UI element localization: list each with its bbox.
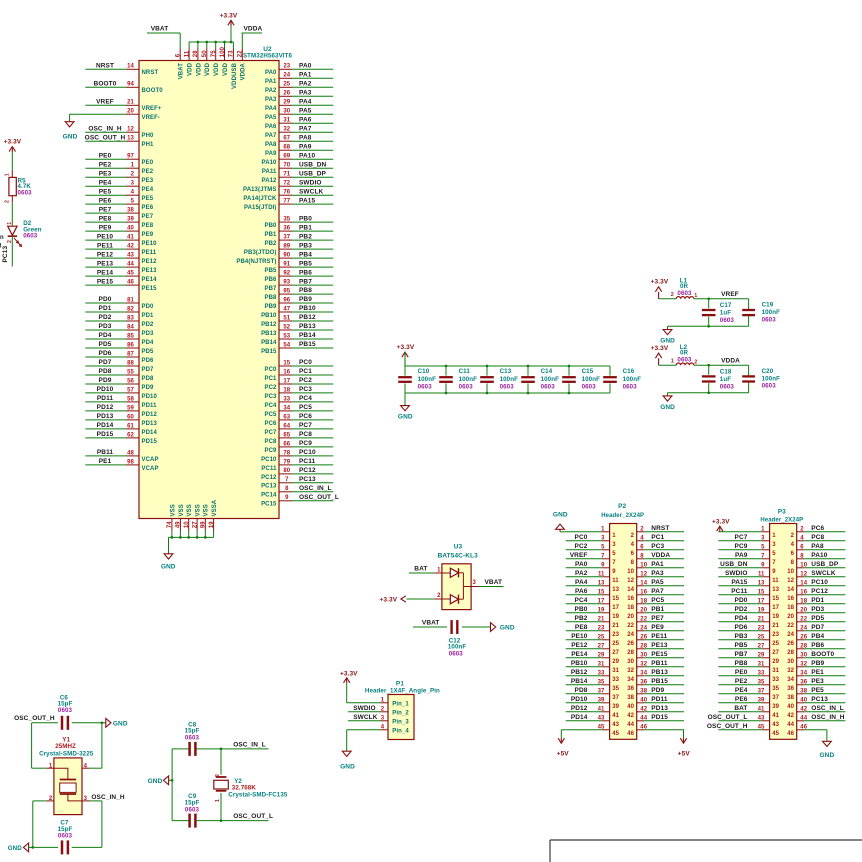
P2 pin 5 PC2 — [566, 543, 617, 557]
svg-text:5: 5 — [612, 551, 616, 557]
U2 pin 37 PB2 wire and labels — [265, 233, 334, 247]
label C16 100nF 0603 — [623, 368, 642, 391]
P2 pin 29 PE14 — [566, 651, 620, 665]
P2 reference designator — [618, 503, 626, 510]
svg-text:17: 17 — [772, 605, 779, 611]
svg-text:15: 15 — [772, 596, 779, 602]
svg-text:PA2: PA2 — [299, 81, 312, 88]
svg-text:OSC_OUT_L: OSC_OUT_L — [233, 813, 273, 820]
svg-text:71: 71 — [283, 172, 290, 178]
wire +3.3V to P1 pin 1 — [347, 683, 381, 703]
svg-text:PC0: PC0 — [265, 367, 278, 373]
junction at +3.3V stem — [230, 41, 233, 44]
wire C9 to OSC_OUT_L label — [196, 820, 269, 822]
svg-text:PD7: PD7 — [142, 367, 155, 373]
svg-text:6: 6 — [176, 53, 182, 57]
svg-text:PB14: PB14 — [261, 340, 277, 346]
wire +3.3V to L2 — [659, 364, 677, 366]
U2 pin 81 PD0 wire and labels — [85, 296, 154, 310]
svg-text:PB12: PB12 — [299, 314, 316, 321]
svg-text:41: 41 — [772, 713, 779, 719]
svg-text:PC10: PC10 — [811, 579, 828, 586]
svg-text:14: 14 — [127, 64, 134, 70]
wire C6 to GND — [72, 722, 102, 724]
svg-text:16: 16 — [787, 596, 794, 602]
svg-text:PA4: PA4 — [575, 579, 588, 586]
U2 pin 15 PC0 wire and labels — [265, 359, 334, 373]
svg-text:96: 96 — [283, 297, 290, 303]
wire OSC_OUT_H to Y1 pin 1 — [32, 723, 47, 768]
P1 pin 2 SWDIO — [348, 705, 409, 717]
U2 pin 13 OSC_OUT_H wire and labels — [85, 134, 154, 148]
svg-text:25: 25 — [612, 641, 619, 647]
svg-text:PH1: PH1 — [142, 142, 155, 148]
svg-text:35: 35 — [772, 686, 779, 692]
svg-text:PC4: PC4 — [265, 403, 278, 409]
svg-text:0603: 0603 — [18, 189, 33, 196]
svg-text:PD2: PD2 — [142, 322, 155, 328]
svg-text:VSS: VSS — [204, 504, 210, 516]
P3 pin 23 PD6 — [718, 624, 779, 638]
svg-text:PC12: PC12 — [811, 588, 828, 595]
svg-text:PA3: PA3 — [265, 97, 277, 103]
P3 pin 16 PC12 — [787, 588, 845, 602]
U3 internal wire — [463, 573, 471, 599]
svg-text:PA10: PA10 — [262, 160, 278, 166]
svg-text:PB5: PB5 — [735, 642, 748, 649]
U2 pin 23 PA0 wire and labels — [265, 63, 333, 77]
svg-text:PE2: PE2 — [735, 678, 748, 685]
svg-text:PD6: PD6 — [735, 624, 748, 631]
svg-text:PD11: PD11 — [651, 696, 668, 703]
svg-text:BOOT0: BOOT0 — [142, 88, 164, 94]
wire OSC_OUT_H to C6 — [32, 722, 58, 724]
svg-text:64: 64 — [283, 423, 290, 429]
svg-text:PE5: PE5 — [99, 188, 112, 195]
svg-text:28: 28 — [193, 50, 199, 57]
U2 pin 42 PE11 wire and labels — [85, 242, 157, 256]
label C11 100nF 0603 — [459, 368, 478, 391]
svg-text:37: 37 — [283, 235, 290, 241]
U2 pin 59 PD12 wire and labels — [85, 404, 157, 418]
label C6 15pF 0603 — [58, 694, 73, 714]
net label OSC_IN_H — [91, 794, 125, 801]
svg-text:46: 46 — [787, 731, 794, 737]
wire +3.3V to L1 — [659, 298, 677, 300]
svg-text:100nF: 100nF — [500, 376, 519, 383]
svg-text:3: 3 — [772, 542, 776, 548]
P2 pin 13 PA4 — [566, 579, 620, 593]
svg-text:59: 59 — [127, 405, 134, 411]
svg-text:C16: C16 — [623, 368, 635, 375]
P3 pin 8 PA10 — [791, 552, 846, 566]
U2 pin 26 PA3 wire and labels — [265, 90, 333, 104]
junction — [31, 846, 34, 849]
svg-text:PB0: PB0 — [265, 223, 278, 229]
svg-text:PB7: PB7 — [735, 651, 748, 658]
svg-text:38: 38 — [787, 695, 794, 701]
wire R5 to D2 — [11, 196, 13, 227]
P2 pin 7 VREF — [566, 552, 617, 566]
svg-text:42: 42 — [787, 713, 794, 719]
P3 pin 43 OSC_OUT_L — [708, 714, 780, 728]
U2 pin 18 PC3 wire and labels — [265, 386, 334, 400]
svg-text:VSS: VSS — [187, 504, 193, 516]
U2 pin 98 PE1 wire and labels — [85, 458, 158, 472]
P2 pin 27 PE12 — [566, 642, 620, 656]
U3 pin 2 +3.3V — [380, 593, 442, 603]
svg-text:PB3(JTDO): PB3(JTDO) — [244, 250, 277, 256]
svg-text:4: 4 — [131, 190, 135, 196]
label Crystal-SMD-FC135 — [228, 791, 288, 798]
svg-text:PA5: PA5 — [299, 108, 312, 115]
svg-text:9: 9 — [612, 569, 616, 575]
label D2 Green 0603 — [23, 220, 42, 239]
svg-text:GND: GND — [500, 624, 515, 631]
U2 pin 7 PC13 wire and labels — [261, 476, 333, 490]
label C12 100nF 0603 — [448, 637, 467, 657]
svg-text:C18: C18 — [720, 369, 732, 376]
svg-text:1: 1 — [215, 799, 221, 802]
svg-text:PE14: PE14 — [97, 269, 114, 276]
svg-text:31: 31 — [612, 668, 619, 674]
svg-text:0603: 0603 — [582, 384, 597, 391]
svg-text:PE13: PE13 — [97, 260, 114, 267]
svg-text:8: 8 — [800, 553, 804, 559]
U2 pin 87 PD6 wire and labels — [85, 350, 154, 364]
svg-text:Pin_1: Pin_1 — [392, 702, 409, 708]
capacitor C6 — [62, 716, 68, 730]
svg-text:C10: C10 — [418, 368, 430, 375]
capacitor C8 — [190, 742, 196, 756]
wire Y1 pin 3 to C7 rail — [90, 801, 102, 848]
P2 pin 39 PD10 — [566, 696, 620, 710]
label C18 1uF 0603 — [720, 369, 735, 391]
svg-text:VDDUSB: VDDUSB — [232, 62, 238, 89]
svg-text:25MHZ: 25MHZ — [55, 743, 76, 750]
U2 pin 3 PE4 wire and labels — [85, 179, 153, 193]
P3 pin 24 PD7 — [787, 624, 845, 638]
net label PC13 — [2, 246, 9, 263]
svg-text:PE7: PE7 — [142, 214, 154, 220]
connector P1 body — [388, 695, 414, 740]
svg-text:OSC_IN_H: OSC_IN_H — [811, 714, 845, 721]
capacitor C9 — [190, 814, 196, 828]
P2 pin 2 NRST — [631, 525, 684, 539]
svg-text:PA1: PA1 — [265, 79, 277, 85]
P2 pin 14 PA5 — [627, 579, 684, 593]
Y1 value 25MHZ — [55, 743, 76, 750]
Y2 reference designator — [234, 778, 242, 785]
wire C7 to Y1 pin 3 — [72, 846, 102, 848]
U2 pin 93 PB7 wire and labels — [265, 278, 334, 292]
svg-text:1uF: 1uF — [720, 310, 731, 317]
svg-text:19: 19 — [612, 614, 619, 620]
P3 pin 12 SWCLK — [787, 570, 845, 584]
svg-text:8: 8 — [631, 560, 635, 566]
svg-text:PD9: PD9 — [142, 385, 155, 391]
P2 pin 34 PB13 — [627, 669, 684, 683]
net label OSC_OUT_L — [233, 813, 273, 820]
svg-text:PD14: PD14 — [571, 714, 588, 721]
P3 pin 30 BOOT0 — [787, 651, 845, 665]
junction — [486, 365, 489, 368]
P3 pin 37 PE4 — [718, 687, 779, 701]
svg-text:PD1: PD1 — [99, 305, 112, 312]
U2 bottom pin 99 VSS — [201, 504, 210, 537]
svg-text:89: 89 — [283, 244, 290, 250]
svg-text:PE4: PE4 — [99, 179, 112, 186]
svg-text:VDD: VDD — [205, 62, 211, 76]
power +3.3V (LED branch) — [4, 139, 22, 152]
svg-text:PB10: PB10 — [261, 313, 277, 319]
svg-text:38: 38 — [627, 695, 634, 701]
svg-text:PB4: PB4 — [299, 251, 312, 258]
ground GND (P3 pin 46) — [820, 730, 835, 759]
junction — [171, 779, 174, 782]
P3 pin 6 PA8 — [791, 543, 846, 557]
svg-text:PB4(NJTRST): PB4(NJTRST) — [236, 259, 276, 265]
P2 pin 18 PC5 — [627, 597, 684, 611]
junction — [527, 365, 530, 368]
svg-text:PB12: PB12 — [261, 322, 277, 328]
svg-text:PD9: PD9 — [651, 687, 664, 694]
svg-text:PD12: PD12 — [142, 412, 158, 418]
P3 pin 14 PC10 — [787, 579, 845, 593]
P2 pin 4 PC1 — [631, 534, 684, 548]
svg-text:STM32H563VIT6: STM32H563VIT6 — [243, 52, 293, 59]
svg-text:PD4: PD4 — [99, 332, 112, 339]
svg-text:PA10: PA10 — [811, 552, 827, 559]
svg-text:PD5: PD5 — [142, 349, 155, 355]
svg-text:99: 99 — [201, 521, 207, 528]
svg-text:35: 35 — [612, 686, 619, 692]
svg-text:2: 2 — [49, 796, 53, 802]
svg-text:PE3: PE3 — [99, 170, 112, 177]
svg-text:PC11: PC11 — [261, 466, 277, 472]
P1 pin 1 — [381, 697, 410, 707]
P3 pin 35 PE2 — [718, 678, 779, 692]
wire VDDA with net label — [242, 26, 263, 34]
power +3.3V (L1 filter) — [651, 279, 669, 299]
svg-text:USB_DN: USB_DN — [299, 161, 327, 168]
svg-text:16: 16 — [627, 596, 634, 602]
U2 pin 35 PB0 wire and labels — [265, 215, 334, 229]
label C8 15pF 0603 — [185, 722, 200, 742]
U2 pin 72 SWDIO wire and labels — [243, 179, 333, 193]
U2 pin 9 OSC_OUT_L wire and labels — [261, 494, 339, 508]
P2 pin 41 PD12 — [566, 705, 620, 719]
U2 pin 31 PA6 wire and labels — [265, 116, 333, 130]
wire GND to Y1 pin 4 — [90, 723, 102, 768]
Y1 pin 4 — [82, 763, 90, 769]
svg-text:PB6: PB6 — [811, 642, 824, 649]
svg-text:Header_2X24P: Header_2X24P — [601, 513, 644, 519]
svg-text:PB15: PB15 — [651, 678, 668, 685]
svg-text:77: 77 — [283, 199, 290, 205]
wire VDDA net — [694, 364, 749, 366]
svg-text:PD13: PD13 — [142, 421, 158, 427]
U2 pin 54 PB15 wire and labels — [261, 341, 333, 355]
svg-text:PA5: PA5 — [265, 115, 277, 121]
junction — [707, 325, 710, 328]
svg-text:3: 3 — [84, 796, 88, 802]
svg-text:7: 7 — [285, 477, 289, 483]
svg-text:PD1: PD1 — [811, 597, 824, 604]
P3 pin 3 PC7 — [718, 534, 776, 548]
U2 pin 66 PC9 wire and labels — [265, 440, 334, 454]
svg-text:PB0: PB0 — [575, 606, 588, 613]
power +3.3V (P3 pin 1) — [712, 519, 730, 532]
svg-text:PB15: PB15 — [261, 349, 277, 355]
svg-text:+3.3V: +3.3V — [220, 13, 238, 20]
svg-text:VREF: VREF — [721, 291, 739, 298]
svg-text:45: 45 — [772, 731, 779, 737]
svg-text:BOOT0: BOOT0 — [94, 81, 117, 88]
junction — [220, 748, 223, 751]
svg-text:0603: 0603 — [58, 833, 73, 840]
svg-text:PA0: PA0 — [265, 70, 277, 76]
P3 pin 39 PE6 — [718, 696, 779, 710]
svg-text:PA6: PA6 — [299, 116, 312, 123]
label C10 100nF 0603 — [418, 368, 437, 391]
svg-text:68: 68 — [283, 145, 290, 151]
svg-text:41: 41 — [127, 235, 134, 241]
svg-text:100nF: 100nF — [762, 309, 781, 316]
U2 top pin 75 VDD — [211, 42, 220, 76]
svg-text:PD3: PD3 — [99, 323, 112, 330]
svg-text:65: 65 — [283, 432, 290, 438]
svg-text:26: 26 — [627, 641, 634, 647]
svg-text:5: 5 — [772, 551, 776, 557]
svg-text:1: 1 — [5, 173, 11, 176]
junction — [568, 392, 571, 395]
label C19 100nF 0603 — [762, 301, 781, 323]
P1 value Header_1X4F_Angle_Pin — [365, 688, 440, 695]
svg-text:PD11: PD11 — [142, 403, 158, 409]
svg-text:9: 9 — [772, 569, 776, 575]
wire Y2 left GND rail — [171, 749, 173, 821]
ground GND (P1) — [340, 730, 355, 771]
svg-text:GND: GND — [660, 338, 675, 345]
svg-text:BOOT0: BOOT0 — [811, 651, 834, 658]
svg-text:PE15: PE15 — [651, 651, 668, 658]
svg-text:21: 21 — [127, 100, 134, 106]
svg-text:PD0: PD0 — [142, 304, 155, 310]
svg-text:VDDA: VDDA — [721, 357, 740, 364]
svg-text:6: 6 — [800, 544, 804, 550]
label C14 100nF 0603 — [541, 368, 560, 391]
svg-text:15: 15 — [612, 596, 619, 602]
U2 pin 34 PC5 wire and labels — [265, 404, 334, 418]
svg-text:19: 19 — [772, 614, 779, 620]
P2 pin 30 PE15 — [627, 651, 684, 665]
svg-text:12: 12 — [787, 578, 794, 584]
P3 pin 28 PB6 — [787, 642, 845, 656]
svg-text:10: 10 — [787, 569, 794, 575]
U2 pin 53 PB14 wire and labels — [261, 332, 333, 346]
svg-text:18: 18 — [627, 605, 634, 611]
svg-text:3: 3 — [612, 542, 616, 548]
junction — [196, 536, 199, 539]
svg-text:4: 4 — [631, 542, 635, 548]
svg-text:23: 23 — [772, 632, 779, 638]
svg-text:32: 32 — [283, 127, 290, 133]
P3 pin 29 PB7 — [718, 651, 779, 665]
P3 pin 17 PD0 — [718, 597, 779, 611]
U2 pin 69 PA10 wire and labels — [262, 152, 334, 166]
U2 pin 65 PC8 wire and labels — [265, 431, 334, 445]
P3 pin 27 PB5 — [718, 642, 779, 656]
svg-text:GND: GND — [161, 564, 176, 571]
svg-text:VCAP: VCAP — [142, 457, 159, 463]
svg-text:VDD: VDD — [214, 62, 220, 76]
svg-text:PD0: PD0 — [99, 296, 112, 303]
P2 value Header_2X24P — [601, 513, 644, 519]
svg-text:OSC_OUT_H: OSC_OUT_H — [85, 134, 126, 141]
svg-text:2: 2 — [671, 292, 674, 298]
svg-text:PD15: PD15 — [142, 439, 158, 445]
svg-text:Pin_3: Pin_3 — [392, 720, 409, 726]
svg-text:VBAT: VBAT — [179, 63, 185, 80]
svg-text:PE13: PE13 — [142, 268, 158, 274]
P2 pin 37 PD8 — [566, 687, 620, 701]
junction — [214, 41, 217, 44]
U2 pin 21 VREF wire and labels — [85, 99, 162, 113]
IC U3 BAT54C-KL3 body — [442, 564, 471, 610]
P2 pin 25 PE10 — [566, 633, 620, 647]
U2 pin 55 PD8 wire and labels — [85, 368, 154, 382]
P3 pin 36 PE3 — [787, 678, 845, 692]
P3 pin 15 PC11 — [718, 588, 779, 602]
P2 pin 10 PA1 — [627, 561, 684, 575]
svg-text:OSC_IN_H: OSC_IN_H — [88, 125, 122, 132]
P3 pin 45 OSC_OUT_H — [707, 723, 780, 737]
svg-text:80: 80 — [283, 468, 290, 474]
U2 pin 51 PB12 wire and labels — [261, 314, 333, 328]
P2 pin 17 PC4 — [566, 597, 620, 611]
svg-text:PC0: PC0 — [575, 534, 588, 541]
svg-text:+3.3V: +3.3V — [4, 139, 22, 146]
svg-text:PC14: PC14 — [261, 493, 277, 499]
svg-text:GND: GND — [8, 845, 22, 852]
svg-text:30: 30 — [283, 109, 290, 115]
U2 pin 96 PB9 wire and labels — [265, 296, 334, 310]
svg-text:0603: 0603 — [677, 290, 692, 297]
svg-text:39: 39 — [612, 704, 619, 710]
svg-text:C11: C11 — [459, 368, 471, 375]
svg-text:USB_DN: USB_DN — [720, 561, 748, 568]
U2 pin 36 PB1 wire and labels — [265, 224, 334, 238]
P2 pin 23 PE8 — [566, 624, 620, 638]
U2 reference designator — [263, 46, 272, 53]
svg-text:13: 13 — [127, 136, 134, 142]
svg-text:0603: 0603 — [185, 807, 200, 814]
P2 pin 20 PB1 — [627, 606, 684, 620]
junction — [707, 364, 710, 367]
svg-text:PH0: PH0 — [142, 133, 155, 139]
junction — [527, 392, 530, 395]
svg-text:1: 1 — [49, 763, 53, 769]
power +5V (P2 pin 45) — [557, 730, 570, 758]
svg-text:PA9: PA9 — [299, 143, 312, 150]
wire D2 to PC13 — [11, 236, 13, 266]
svg-text:11: 11 — [184, 50, 190, 57]
svg-text:C15: C15 — [582, 368, 594, 375]
svg-text:32: 32 — [787, 668, 794, 674]
P2 pin 38 PD9 — [627, 687, 684, 701]
svg-text:VSS: VSS — [196, 504, 202, 516]
